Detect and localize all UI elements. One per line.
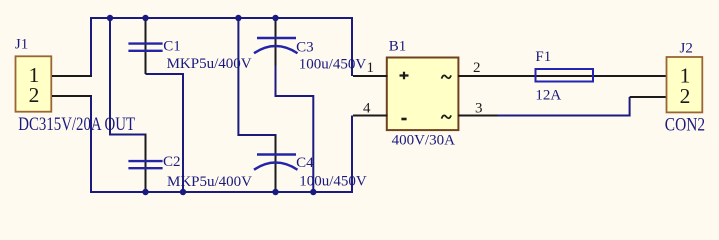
wire top rail with left/right drops — [91, 18, 352, 76]
B1 tilde top — [442, 75, 451, 78]
capacitor C1 plates — [128, 44, 162, 51]
wire bottom rail with left/right risers — [91, 96, 352, 192]
svg-text:100u/450V: 100u/450V — [299, 57, 367, 73]
svg-text:2: 2 — [473, 60, 481, 76]
svg-text:C1: C1 — [163, 38, 181, 54]
junction dot bottom rail C4 — [272, 189, 278, 195]
svg-text:12A: 12A — [535, 88, 561, 104]
svg-text:3: 3 — [475, 100, 483, 116]
B1 pin 4 stub — [353, 115, 388, 117]
junction dot top rail x110 — [107, 15, 113, 21]
junction dot top rail C1 — [142, 15, 148, 21]
svg-text:CON2: CON2 — [665, 114, 705, 135]
B1 pin 1 stub — [353, 75, 388, 77]
svg-text:J1: J1 — [15, 37, 28, 53]
B1 tilde bottom — [442, 115, 451, 118]
capacitor C3 arc plate — [254, 46, 298, 53]
J1 pin 2 stub — [52, 95, 92, 97]
connector J2 — [667, 57, 703, 112]
svg-text:2: 2 — [680, 84, 691, 108]
J1 pin 1 stub — [52, 75, 92, 77]
svg-text:MKP5u/400V: MKP5u/400V — [167, 174, 252, 190]
B1 plus symbol — [400, 72, 409, 79]
capacitor C3 top plate — [257, 37, 296, 39]
wire B1 pin3 to J2 pin2 — [497, 97, 630, 116]
J2 pin 2 stub — [630, 96, 668, 98]
wire mid column to C2 — [110, 17, 147, 135]
capacitor C3 pin — [275, 17, 277, 66]
svg-text:C3: C3 — [296, 39, 314, 55]
junction dot bottom rail C2 — [142, 189, 148, 195]
connector J1 — [16, 56, 52, 111]
junction dot top rail x238 — [235, 15, 241, 21]
capacitor C4 pin — [275, 135, 277, 192]
svg-text:1: 1 — [367, 60, 375, 76]
B1 pin 3 stub — [458, 115, 498, 117]
svg-text:MKP5u/400V: MKP5u/400V — [167, 56, 252, 72]
fuse F1 body — [536, 69, 594, 82]
svg-text:C2: C2 — [163, 154, 181, 170]
capacitor C1 pin — [145, 17, 147, 74]
capacitor C4 arc plate — [254, 163, 298, 170]
wire C3 bottom route — [276, 60, 314, 192]
bridge rectifier B1 — [387, 58, 459, 131]
junction dot bottom rail x183 — [180, 189, 186, 195]
wire C4 top route — [238, 17, 276, 135]
svg-text:J2: J2 — [680, 40, 693, 56]
wire B1 pin2 through fuse to J2 pin1 — [458, 75, 668, 77]
capacitor C4 top plate — [257, 153, 296, 155]
svg-text:DC315V/20A OUT: DC315V/20A OUT — [18, 114, 135, 135]
svg-text:2: 2 — [29, 83, 40, 107]
capacitor C2 pin — [145, 135, 147, 193]
svg-text:C4: C4 — [296, 155, 314, 171]
svg-text:4: 4 — [363, 100, 371, 116]
capacitor C2 plates — [128, 161, 162, 168]
junction dot bottom rail x313 — [310, 189, 316, 195]
B1 minus symbol — [401, 118, 406, 121]
junction dot top rail C3 — [272, 15, 278, 21]
svg-text:100u/450V: 100u/450V — [299, 174, 367, 190]
svg-text:F1: F1 — [535, 49, 551, 65]
svg-text:400V/30A: 400V/30A — [392, 133, 456, 149]
svg-text:B1: B1 — [389, 39, 407, 55]
wire C1 bottom route — [146, 74, 184, 192]
